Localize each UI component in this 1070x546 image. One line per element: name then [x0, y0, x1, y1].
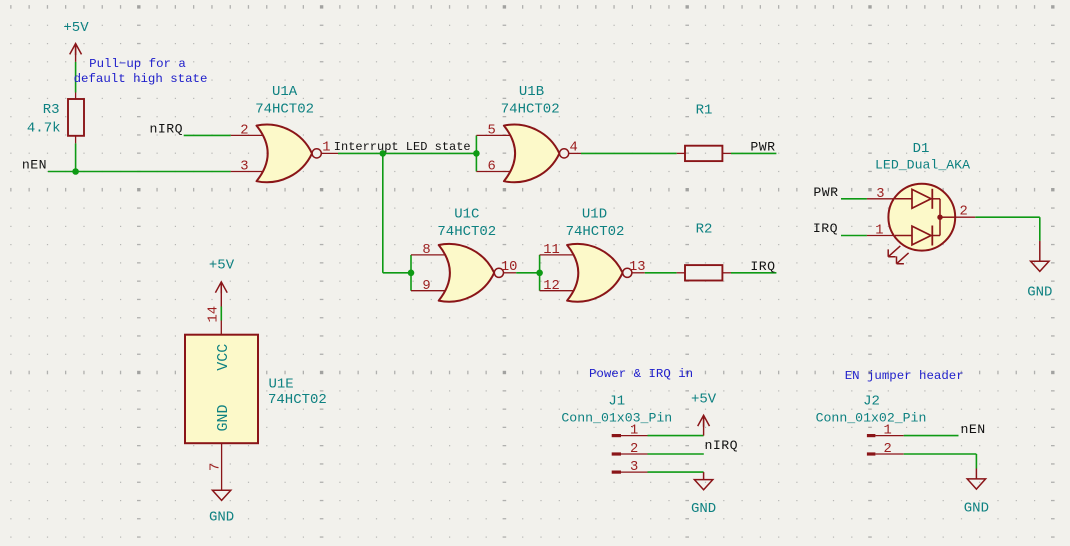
D1 pin 2: [955, 216, 975, 218]
wire R1 to PWR label: [731, 152, 776, 154]
wire J2 pin2 to GND: [904, 454, 977, 469]
junction U1C inputs: [408, 270, 415, 277]
svg-text:Conn_01x03_Pin: Conn_01x03_Pin: [561, 410, 672, 425]
svg-text:12: 12: [543, 279, 560, 294]
svg-text:LED_Dual_AKA: LED_Dual_AKA: [875, 157, 970, 172]
wire down to second row: [382, 153, 384, 272]
svg-text:1: 1: [630, 424, 638, 439]
junction nEN/R3: [72, 168, 79, 175]
svg-text:8: 8: [422, 243, 430, 258]
wire J1 pin1 to +5V: [648, 435, 704, 437]
svg-text:Power & IRQ in: Power & IRQ in: [589, 367, 693, 381]
svg-text:D1: D1: [913, 141, 930, 157]
wire +5V to R3: [75, 62, 77, 93]
wire to U1C inputs: [383, 272, 411, 274]
U1C pin 8: [411, 254, 447, 256]
svg-text:default high state: default high state: [74, 72, 208, 86]
svg-text:U1B: U1B: [519, 84, 544, 100]
wire R2 to IRQ label: [731, 272, 776, 274]
U1D pin 12: [540, 290, 575, 292]
svg-text:1: 1: [322, 141, 330, 156]
LED D1 LED_Dual_AKA: [875, 141, 970, 264]
svg-text:11: 11: [543, 243, 560, 258]
svg-text:2: 2: [630, 442, 638, 457]
svg-text:R1: R1: [696, 103, 713, 119]
svg-text:74HCT02: 74HCT02: [268, 392, 327, 408]
svg-text:J1: J1: [608, 394, 625, 410]
gate U1A 74HCT02: [255, 84, 321, 182]
svg-text:3: 3: [240, 160, 248, 175]
svg-text:Conn_01x02_Pin: Conn_01x02_Pin: [816, 410, 927, 425]
junction U1B inputs: [473, 150, 480, 157]
svg-text:nEN: nEN: [961, 422, 986, 437]
resistor R1: [677, 103, 731, 161]
svg-text:5: 5: [488, 124, 496, 139]
svg-text:PWR: PWR: [813, 185, 838, 200]
svg-text:VCC: VCC: [215, 344, 232, 371]
svg-text:74HCT02: 74HCT02: [255, 102, 314, 118]
svg-text:nEN: nEN: [22, 158, 47, 173]
wire U1B input tie: [475, 135, 477, 171]
resistor R3: [27, 93, 84, 144]
gate U1D 74HCT02: [566, 206, 632, 301]
D1 pin 1: [867, 235, 895, 237]
wire J1 pin3 to GND: [648, 471, 704, 473]
op U1A pin 2: [231, 134, 265, 136]
svg-text:6: 6: [488, 160, 496, 175]
ground symbol at D1: [1027, 241, 1052, 301]
svg-text:3: 3: [876, 187, 884, 202]
U1E pin 7: [221, 443, 223, 490]
svg-text:7: 7: [209, 463, 224, 471]
wire U1D input tie: [539, 255, 541, 291]
svg-text:J2: J2: [863, 394, 880, 410]
power symbol +5V at J1: [691, 392, 717, 436]
svg-text:9: 9: [422, 279, 430, 294]
gate U1C 74HCT02: [437, 206, 503, 301]
wire R3 to nEN net: [75, 143, 77, 171]
svg-text:GND: GND: [964, 501, 989, 517]
svg-text:nIRQ: nIRQ: [705, 438, 738, 453]
U1B output pin 4: [569, 152, 581, 154]
D1 pin 3: [867, 198, 895, 200]
wire U1B out to R1: [581, 152, 677, 154]
resistor R2: [677, 222, 731, 281]
svg-text:PWR: PWR: [750, 139, 775, 154]
svg-text:74HCT02: 74HCT02: [501, 102, 560, 118]
svg-text:+5V: +5V: [691, 392, 717, 408]
svg-text:3: 3: [630, 460, 638, 475]
wire nIRQ to U1A pin 2: [184, 134, 231, 136]
svg-text:U1C: U1C: [454, 206, 479, 222]
U1C output pin 10: [504, 272, 517, 274]
svg-text:4.7k: 4.7k: [27, 121, 61, 137]
svg-text:IRQ: IRQ: [750, 259, 775, 274]
wire D1 pin2 to GND: [975, 217, 1040, 241]
connector J2 Conn_01x02_Pin: [816, 394, 927, 458]
power symbol +5V at U1E: [209, 257, 235, 306]
wire U1C out to U1D: [516, 272, 539, 274]
ground symbol at U1E: [209, 490, 234, 525]
U1A pin 3: [231, 171, 265, 173]
junction U1D inputs: [536, 270, 543, 277]
svg-text:R2: R2: [696, 222, 713, 238]
svg-text:74HCT02: 74HCT02: [566, 224, 625, 240]
wire U1C input tie: [410, 255, 412, 291]
wire PWR to D1 pin 3: [841, 198, 867, 200]
svg-text:2: 2: [884, 442, 892, 457]
connector J1 Conn_01x03_Pin: [561, 394, 672, 476]
svg-text:13: 13: [629, 260, 646, 275]
U1B pin 6: [476, 171, 512, 173]
U1A output pin 1: [321, 152, 338, 154]
svg-text:GND: GND: [215, 404, 232, 431]
svg-text:nIRQ: nIRQ: [150, 121, 183, 136]
svg-text:EN jumper header: EN jumper header: [845, 369, 964, 383]
svg-text:GND: GND: [209, 510, 234, 526]
wire U1A out to U1B inputs: [338, 152, 476, 154]
svg-text:1: 1: [884, 424, 892, 439]
wire J2 pin1 to nEN: [904, 435, 959, 437]
svg-text:R3: R3: [43, 102, 60, 118]
svg-text:Interrupt LED state: Interrupt LED state: [334, 140, 471, 154]
svg-text:U1D: U1D: [582, 206, 607, 222]
ground symbol at J1: [691, 472, 716, 517]
U1C pin 9: [411, 290, 447, 292]
svg-text:4: 4: [570, 141, 578, 156]
note: pull-up comment: [74, 57, 208, 86]
U1D pin 11: [540, 254, 575, 256]
wire +5V to U1E pin 14: [220, 307, 222, 321]
junction at U1A out branch: [380, 150, 387, 157]
svg-text:10: 10: [501, 260, 518, 275]
svg-text:U1E: U1E: [269, 376, 294, 392]
wire IRQ to D1 pin 1: [841, 235, 867, 237]
wire nEN to U1A pin 3: [48, 171, 231, 173]
svg-text:74HCT02: 74HCT02: [437, 224, 496, 240]
svg-text:+5V: +5V: [63, 20, 89, 36]
power symbol +5V (R3 pull-up): [63, 20, 89, 62]
svg-text:U1A: U1A: [272, 84, 298, 100]
wire U1D out to R2: [645, 272, 677, 274]
ground symbol at J2: [964, 469, 989, 517]
svg-text:GND: GND: [1027, 284, 1052, 300]
U1D output pin 13: [632, 272, 645, 274]
U1B pin 5: [476, 134, 512, 136]
svg-text:GND: GND: [691, 501, 716, 517]
svg-text:Pull−up for a: Pull−up for a: [89, 57, 186, 71]
gate U1B 74HCT02: [501, 84, 569, 182]
svg-text:2: 2: [960, 204, 968, 219]
IC U1E 74HCT02 power unit: [185, 335, 327, 444]
svg-text:IRQ: IRQ: [813, 221, 838, 236]
svg-text:+5V: +5V: [209, 257, 235, 273]
svg-text:2: 2: [240, 124, 248, 139]
wire J1 pin2 to nIRQ: [648, 453, 704, 455]
U1E pin 14: [220, 321, 222, 335]
svg-text:14: 14: [207, 306, 222, 323]
svg-text:1: 1: [875, 224, 883, 239]
